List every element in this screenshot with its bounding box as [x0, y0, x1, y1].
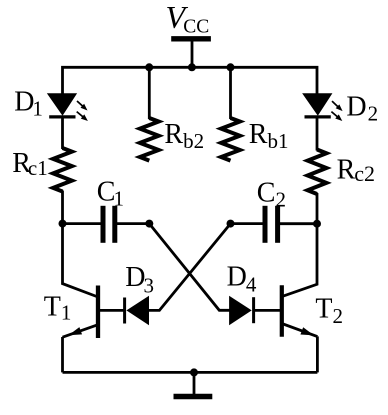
wire T2 emitter down	[316, 336, 319, 372]
capacitor C1	[103, 206, 115, 243]
wire node B to T2 collector	[282, 224, 317, 297]
svg-text:D3: D3	[125, 262, 154, 298]
node top-right junction	[227, 63, 235, 71]
wire Rc1 to node A	[61, 191, 64, 224]
resistor Rb1	[221, 118, 240, 161]
wire D1 to Rc1	[61, 116, 64, 149]
transistor T1	[63, 286, 99, 339]
node ground junction	[190, 368, 198, 376]
svg-text:D1: D1	[14, 87, 43, 121]
node top-center junction	[188, 63, 196, 71]
wire cross-coupling Rb1 node to D3 anode	[148, 224, 231, 311]
wire T1 emitter down	[61, 337, 64, 372]
wire C1 right	[117, 222, 149, 225]
node Rb1/C2 junction	[227, 220, 235, 228]
wire D4 cathode to T2 base	[254, 309, 282, 312]
power VCC bar	[171, 36, 211, 41]
wire Rc2 to node B	[316, 193, 319, 224]
wire C1 left	[63, 222, 102, 225]
svg-text:D2: D2	[346, 91, 378, 125]
svg-text:C1: C1	[97, 177, 124, 211]
diode D4	[230, 297, 254, 325]
svg-text:D4: D4	[227, 261, 257, 296]
node A (Rc1/C1/T1 collector)	[59, 220, 67, 228]
svg-text:Rb2: Rb2	[164, 119, 204, 153]
wire T1 base to D3 cathode	[98, 309, 125, 312]
LED D2	[303, 94, 343, 121]
node B (Rc2/C2/T2 collector)	[313, 220, 321, 228]
wire node A to T1 collector	[63, 224, 99, 297]
svg-text:C2: C2	[257, 177, 286, 211]
svg-text:Rc1: Rc1	[12, 148, 48, 180]
wire C2 right	[280, 222, 317, 225]
wire Rb1 stub	[229, 67, 232, 119]
svg-text:T1: T1	[44, 291, 72, 324]
LED D1	[48, 94, 88, 121]
node top-left junction	[145, 63, 153, 71]
capacitor C2	[265, 206, 278, 243]
wire D2 to Rc2	[316, 116, 319, 151]
ground	[174, 394, 213, 399]
wire ground stub	[193, 372, 196, 394]
wire Rb2 stub	[148, 67, 151, 119]
svg-text:Rb1: Rb1	[249, 119, 289, 153]
wire bottom rail	[63, 371, 318, 374]
svg-text:T2: T2	[315, 294, 343, 328]
diode D3	[125, 297, 149, 325]
wire C2 left	[231, 222, 264, 225]
wire VCC stub	[191, 39, 194, 69]
node Rb2/C1 junction	[145, 220, 153, 228]
wire top rail	[63, 67, 318, 95]
resistor Rc1	[53, 148, 72, 192]
svg-text:Rc2: Rc2	[337, 154, 375, 186]
resistor Rb2	[140, 118, 159, 161]
wire cross-coupling Rb2 node to D4 anode	[149, 224, 230, 311]
resistor Rc2	[308, 150, 327, 195]
svg-text:CC: CC	[183, 16, 209, 37]
transistor T2	[282, 285, 318, 337]
